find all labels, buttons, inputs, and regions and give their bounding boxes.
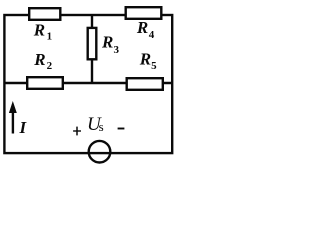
svg-text:R: R — [139, 49, 151, 68]
svg-text:R: R — [136, 18, 148, 37]
svg-text:R: R — [33, 21, 45, 40]
svg-text:2: 2 — [47, 60, 53, 72]
svg-text:4: 4 — [149, 29, 155, 41]
svg-text:5: 5 — [151, 60, 157, 72]
svg-text:1: 1 — [47, 31, 53, 43]
svg-text:s: s — [99, 119, 104, 134]
svg-text:R: R — [33, 50, 45, 69]
svg-text:R: R — [101, 32, 113, 51]
svg-text:3: 3 — [114, 44, 120, 56]
